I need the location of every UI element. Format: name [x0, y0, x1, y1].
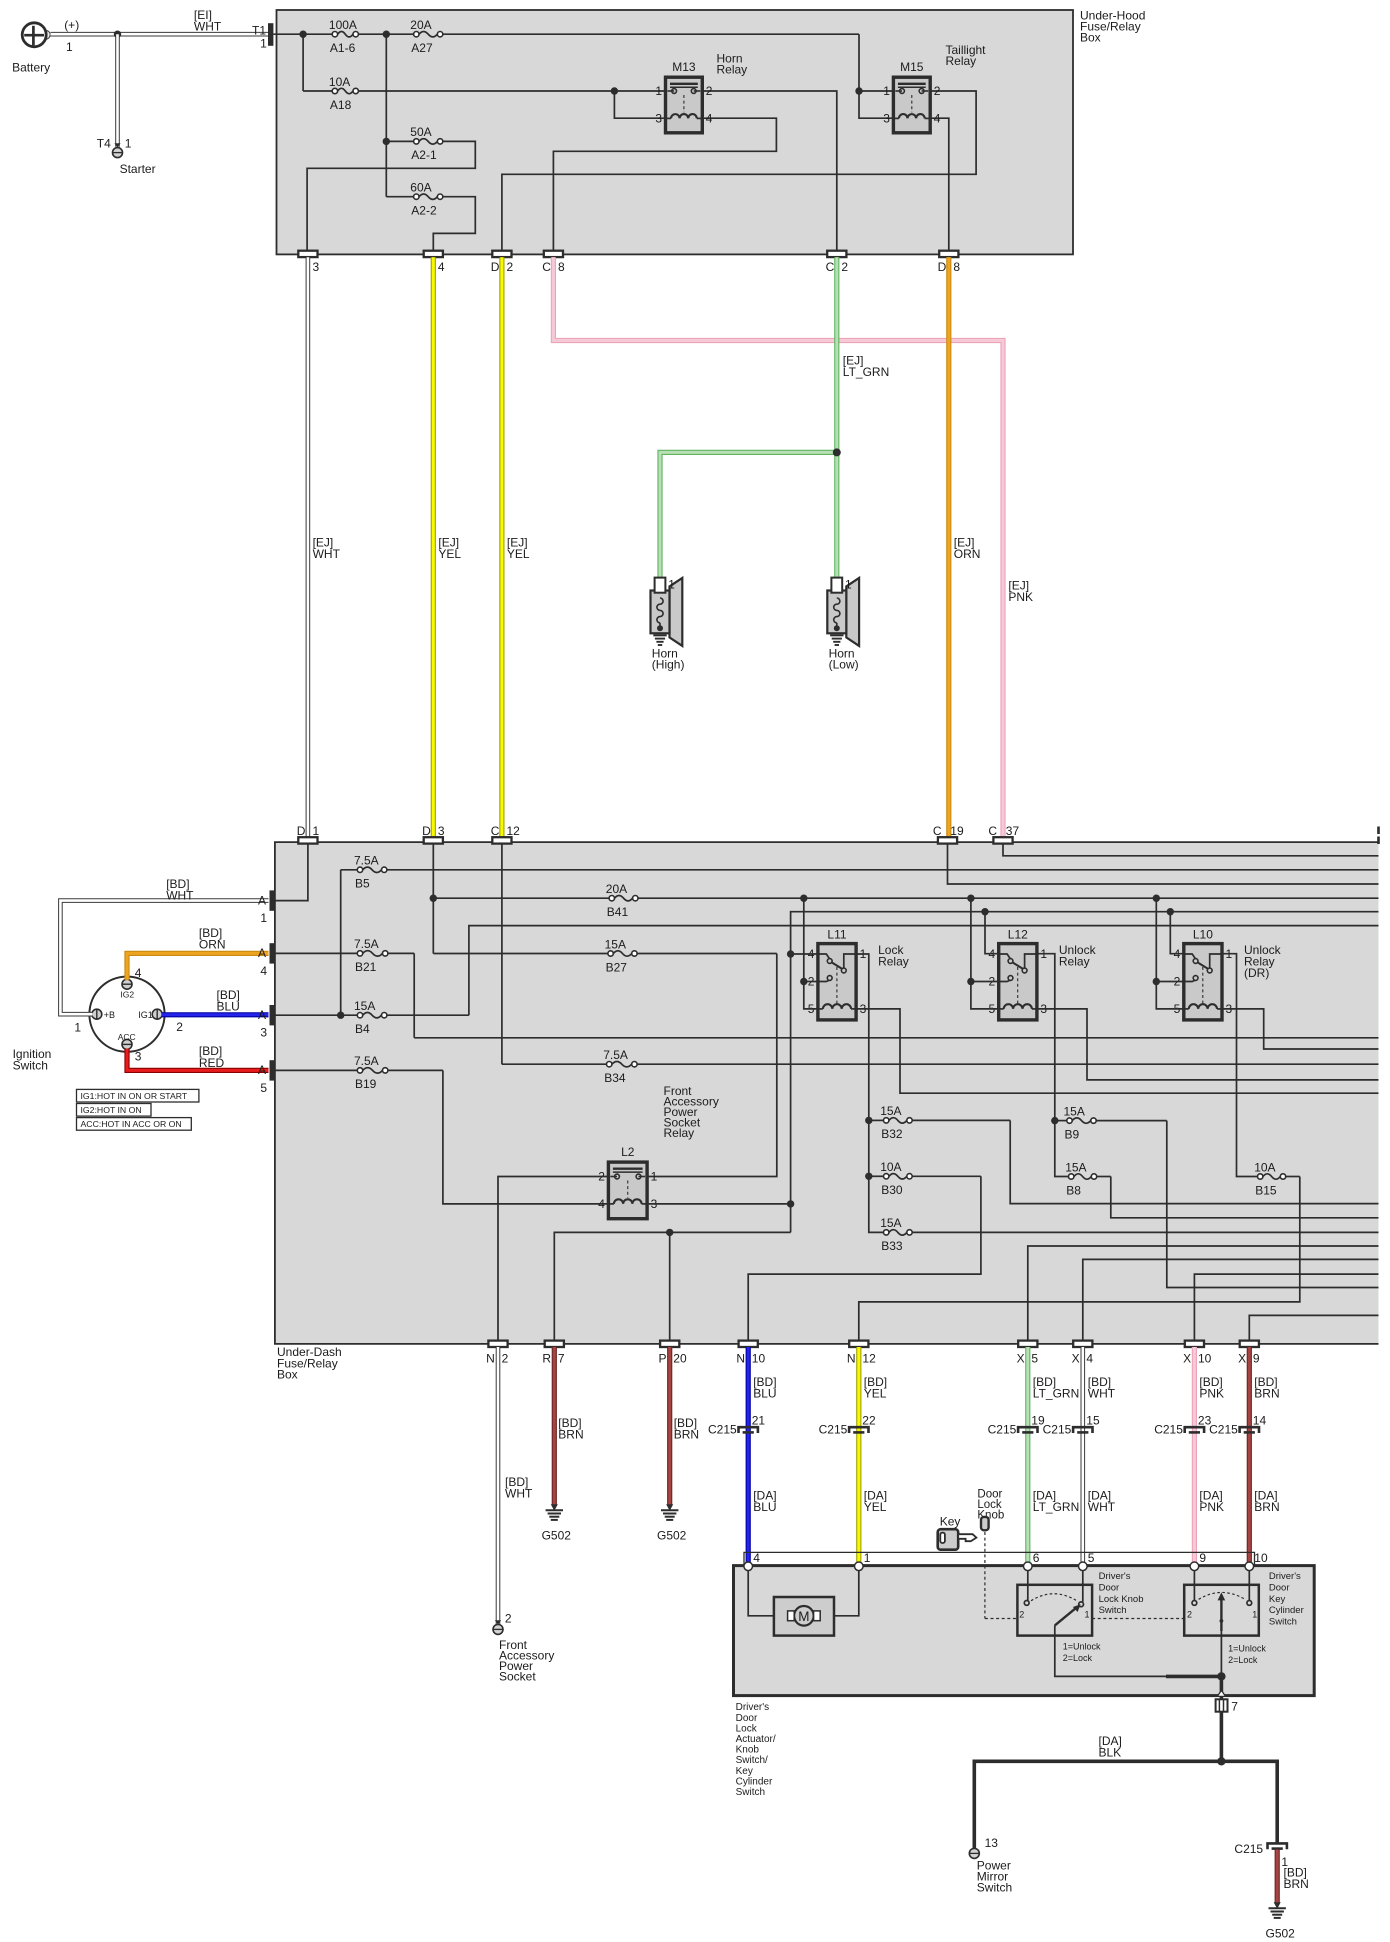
svg-text:9: 9	[1199, 1551, 1206, 1565]
svg-text:X: X	[1017, 1352, 1025, 1366]
bus row B5 output	[387, 869, 1379, 871]
svg-text:4: 4	[438, 260, 445, 274]
wire L12 pin1 to B9/B8	[1037, 954, 1069, 1177]
svg-text:Key: Key	[940, 1515, 961, 1529]
svg-text:2: 2	[507, 260, 514, 274]
svg-text:1: 1	[125, 137, 132, 151]
svg-text:Door: Door	[1099, 1582, 1120, 1593]
wire L2 pin3 row	[647, 1203, 791, 1205]
wire [BD] WHT N2 to front accessory power socket	[496, 1347, 501, 1625]
wire 60A out to connector 4	[433, 197, 475, 251]
svg-text:WHT: WHT	[505, 1487, 533, 1501]
svg-text:N: N	[486, 1352, 495, 1366]
wire B15 to N12	[859, 1177, 1300, 1341]
svg-text:C215: C215	[1234, 1842, 1263, 1856]
svg-text:3: 3	[135, 1049, 142, 1063]
junction dots top bus	[299, 31, 306, 38]
svg-text:BRN: BRN	[558, 1428, 583, 1442]
row A3/B4	[275, 1014, 357, 1016]
wire [BD]/[DA] YEL N12 to door terminal 1	[856, 1347, 861, 1563]
connector A4	[270, 943, 275, 963]
wire L10 pin2/pin5 feed	[1156, 898, 1184, 981]
svg-text:7: 7	[1231, 1700, 1238, 1714]
wire D1 to A1 inside	[275, 844, 308, 901]
svg-text:WHT: WHT	[194, 20, 222, 34]
svg-text:4: 4	[135, 966, 142, 980]
relay L10 Unlock Relay (DR)	[1184, 944, 1222, 1020]
svg-text:Box: Box	[277, 1368, 298, 1382]
svg-text:5: 5	[1031, 1352, 1038, 1366]
svg-text:D: D	[422, 824, 431, 838]
svg-text:2: 2	[1187, 1610, 1192, 1620]
svg-text:1=Unlock: 1=Unlock	[1063, 1642, 1101, 1652]
svg-text:C: C	[826, 260, 835, 274]
svg-text:Door: Door	[736, 1713, 758, 1724]
svg-text:15A: 15A	[354, 999, 375, 1013]
svg-text:22: 22	[862, 1413, 876, 1427]
svg-text:Switch: Switch	[977, 1880, 1012, 1894]
svg-text:1: 1	[260, 36, 267, 50]
door terminals	[744, 1562, 753, 1571]
wire [DA] BLK from connector 7	[1220, 1712, 1224, 1762]
connector N10	[739, 1341, 758, 1347]
svg-text:60A: 60A	[410, 181, 431, 195]
svg-text:1: 1	[651, 1170, 658, 1184]
svg-text:WHT: WHT	[1088, 1387, 1116, 1401]
svg-text:(High): (High)	[652, 658, 685, 672]
svg-text:BRN: BRN	[674, 1428, 699, 1442]
svg-text:B19: B19	[355, 1077, 377, 1091]
fuse B27 15A	[613, 951, 631, 956]
svg-text:Relay: Relay	[1059, 955, 1090, 969]
wire L12 pin4 feed	[985, 912, 999, 954]
svg-text:BRN: BRN	[1254, 1500, 1279, 1514]
fuse B8 15A	[1074, 1174, 1091, 1179]
svg-text:BLU: BLU	[753, 1387, 776, 1401]
svg-text:L11: L11	[827, 928, 846, 942]
svg-text:1=Unlock: 1=Unlock	[1228, 1644, 1266, 1654]
svg-text:Switch: Switch	[1099, 1605, 1127, 1616]
svg-text:Relay: Relay	[717, 63, 748, 77]
svg-text:B21: B21	[355, 960, 377, 974]
connector 7	[1218, 1690, 1225, 1695]
svg-text:WHT: WHT	[1088, 1500, 1116, 1514]
svg-text:B5: B5	[355, 877, 370, 891]
ignition switch SW1	[89, 977, 164, 1052]
svg-text:D: D	[297, 824, 306, 838]
wire [BD] WHT ignition +B to A1	[60, 901, 268, 1015]
svg-text:Lock Knob: Lock Knob	[1099, 1594, 1144, 1605]
relay M15 Taillight Relay	[893, 77, 930, 133]
mechanical dashed link	[984, 1532, 986, 1619]
svg-text:C: C	[542, 260, 551, 274]
wire junction down to 50A/60A	[385, 34, 387, 197]
svg-text:A2-1: A2-1	[411, 148, 437, 162]
svg-text:B15: B15	[1255, 1183, 1277, 1197]
wire M13 pin1/pin3 feed	[612, 90, 666, 92]
connector D1	[298, 837, 317, 843]
door key cylinder switch	[1193, 1571, 1195, 1601]
svg-text:L2: L2	[621, 1145, 635, 1159]
wire key switch to junction	[1220, 1631, 1222, 1676]
wire L12 pin3 out	[1037, 1009, 1379, 1080]
connector P20	[660, 1341, 679, 1347]
svg-text:G502: G502	[542, 1529, 572, 1543]
svg-text:20A: 20A	[606, 882, 627, 896]
svg-text:21: 21	[752, 1413, 766, 1427]
svg-text:10: 10	[1198, 1352, 1212, 1366]
wire [BD]/[DA] BRN X9 to door terminal 10	[1247, 1347, 1252, 1563]
terminal 13 power mirror switch	[969, 1848, 979, 1858]
svg-text:Knob: Knob	[736, 1745, 760, 1756]
svg-text:ORN: ORN	[199, 938, 226, 952]
svg-text:4: 4	[753, 1551, 760, 1565]
svg-text:4: 4	[598, 1197, 605, 1211]
wire junction down to 10A row	[302, 34, 304, 91]
driver's door lock actuator box	[734, 1566, 1315, 1696]
svg-text:10A: 10A	[880, 1160, 901, 1174]
svg-text:3: 3	[313, 260, 320, 274]
svg-text:15A: 15A	[1064, 1104, 1085, 1118]
horn (low)	[846, 578, 859, 646]
svg-text:(DR): (DR)	[1244, 966, 1269, 980]
wire B30 to N10	[748, 1176, 981, 1340]
wire [BD] RED ignition ACC to A5	[127, 1049, 269, 1071]
svg-text:Cylinder: Cylinder	[736, 1776, 773, 1787]
svg-text:1: 1	[668, 578, 675, 592]
connector C8	[544, 251, 563, 257]
svg-text:D: D	[491, 260, 500, 274]
svg-text:20A: 20A	[410, 18, 431, 32]
svg-text:1: 1	[1252, 1610, 1257, 1620]
wire [EJ] ORN D8 to C19	[946, 257, 951, 837]
connector T1	[268, 23, 273, 46]
relay M13 Horn Relay	[666, 77, 703, 133]
svg-text:Switch/: Switch/	[736, 1755, 768, 1766]
svg-text:9: 9	[1253, 1352, 1260, 1366]
svg-text:LT_GRN: LT_GRN	[1033, 1387, 1079, 1401]
wire junction to connector 7	[1220, 1676, 1224, 1698]
under-hood fuse/relay box	[277, 10, 1074, 254]
svg-text:B4: B4	[355, 1022, 370, 1036]
svg-text:T4: T4	[97, 137, 111, 151]
svg-text:2: 2	[841, 260, 848, 274]
fuse B21 7.5A	[363, 951, 383, 956]
battery B1	[42, 31, 51, 40]
svg-text:Switch: Switch	[1269, 1617, 1297, 1628]
svg-text:X: X	[1183, 1352, 1191, 1366]
svg-text:6: 6	[1033, 1551, 1040, 1565]
svg-text:1: 1	[883, 84, 890, 98]
svg-text:IG2: IG2	[120, 989, 134, 999]
connector X9	[1240, 1341, 1259, 1347]
svg-text:15A: 15A	[1065, 1160, 1086, 1174]
fuse A2-2 60A	[419, 194, 437, 199]
bus row B21 output y1038	[414, 1037, 1378, 1039]
svg-text:A1-6: A1-6	[330, 41, 356, 55]
svg-text:Box: Box	[1080, 31, 1101, 45]
wire M15 pin4 to connector D8	[930, 118, 949, 251]
svg-text:ORN: ORN	[954, 547, 981, 561]
svg-text:B33: B33	[881, 1239, 903, 1253]
connector C2	[827, 251, 846, 257]
wire [EJ] WHT connector3 to D1	[306, 257, 311, 837]
svg-text:37: 37	[1006, 824, 1020, 838]
svg-text:1: 1	[66, 40, 73, 54]
svg-text:Starter: Starter	[120, 162, 156, 176]
wire X4 feed	[1083, 1259, 1379, 1340]
svg-text:4: 4	[1086, 1352, 1093, 1366]
wire M13 pin4 to connector C8	[553, 118, 776, 251]
fuse B41 20A	[615, 896, 633, 901]
connector X5	[1018, 1341, 1037, 1347]
svg-text:15A: 15A	[880, 1104, 901, 1118]
svg-text:(Low): (Low)	[829, 658, 859, 672]
wire L12 pin2/pin5 feed	[971, 898, 999, 981]
svg-text:C: C	[933, 824, 942, 838]
wire L10 pin3 out	[1222, 1009, 1379, 1049]
bus row B41 output	[433, 897, 609, 899]
svg-text:1: 1	[260, 911, 267, 925]
note ACC hot	[77, 1118, 192, 1131]
svg-text:A2-2: A2-2	[411, 204, 437, 218]
svg-text:4: 4	[260, 964, 267, 978]
wire [BD] BRN R7 to G502	[552, 1347, 557, 1505]
svg-text:PNK: PNK	[1199, 1387, 1224, 1401]
svg-text:Switch: Switch	[736, 1787, 765, 1798]
terminal 2 front accessory power socket	[493, 1624, 503, 1634]
svg-text:Key: Key	[736, 1766, 753, 1777]
svg-text:B9: B9	[1065, 1127, 1080, 1141]
svg-text:WHT: WHT	[313, 547, 341, 561]
svg-text:IG1: IG1	[138, 1010, 153, 1020]
edge continuation mark	[1377, 827, 1380, 835]
connector 3	[298, 251, 317, 257]
row A4/B21/B27	[275, 952, 357, 954]
svg-text:YEL: YEL	[507, 547, 530, 561]
svg-text:13: 13	[985, 1836, 999, 1850]
fuse B4 15A	[363, 1013, 382, 1018]
svg-text:1: 1	[74, 1021, 81, 1035]
svg-text:12: 12	[507, 824, 521, 838]
svg-text:Actuator/: Actuator/	[736, 1734, 776, 1745]
svg-text:X: X	[1238, 1352, 1246, 1366]
connector D2	[492, 251, 511, 257]
note IG2 hot	[77, 1104, 152, 1117]
fuse A27 20A	[419, 32, 437, 37]
wire L11 pin4 feed	[791, 953, 818, 955]
relay L11 Lock Relay	[818, 944, 856, 1020]
svg-text:2: 2	[505, 1611, 512, 1625]
svg-text:B41: B41	[607, 905, 629, 919]
connector N12	[849, 1341, 868, 1347]
svg-text:3: 3	[438, 824, 445, 838]
connector C215-1	[1268, 1843, 1287, 1849]
note IG1 hot	[77, 1089, 199, 1102]
svg-text:14: 14	[1253, 1413, 1267, 1427]
wire [BD] ORN ignition IG2 to A4	[127, 953, 269, 979]
svg-text:10A: 10A	[1254, 1160, 1275, 1174]
bus row y912	[791, 912, 1379, 954]
wire [EJ] PNK C8 to C37	[553, 257, 1003, 837]
wire [BD] BLU ignition IG1 to A3	[162, 1012, 269, 1017]
svg-text:B8: B8	[1066, 1183, 1081, 1197]
svg-text:B34: B34	[604, 1071, 626, 1085]
svg-text:2: 2	[176, 1020, 183, 1034]
svg-text:Battery: Battery	[12, 61, 50, 75]
svg-text:3: 3	[260, 1026, 267, 1040]
door lock knob switch	[1027, 1571, 1029, 1601]
svg-text:4: 4	[934, 111, 941, 125]
connector C37	[993, 837, 1012, 843]
svg-text:2=Lock: 2=Lock	[1063, 1653, 1093, 1663]
wire ground row to R7/P20	[554, 1232, 790, 1340]
wire X9 feed	[1249, 1315, 1378, 1340]
wire M15 pin1/pin3 feed	[858, 34, 860, 91]
svg-text:L10: L10	[1193, 928, 1213, 942]
fuse B34 7.5A	[612, 1062, 632, 1067]
svg-text:R: R	[542, 1352, 551, 1366]
svg-text:B32: B32	[881, 1127, 903, 1141]
svg-text:7.5A: 7.5A	[354, 937, 379, 951]
ground G502 (P20)	[666, 1504, 673, 1511]
wire L11 pin2/pin5 feed from B41 row	[803, 898, 805, 981]
wire L11 pin1 to fuses B32/B30/B33	[856, 954, 883, 1232]
svg-text:19: 19	[950, 824, 964, 838]
svg-text:M: M	[798, 1609, 809, 1624]
svg-text:PNK: PNK	[1008, 590, 1033, 604]
wire [DA] BLK to C215	[1221, 1761, 1277, 1842]
svg-text:(+): (+)	[64, 18, 79, 32]
wire [BD]/[DA] PNK X10 to door terminal 9	[1192, 1347, 1197, 1563]
svg-text:A27: A27	[411, 41, 433, 55]
svg-text:WHT: WHT	[166, 889, 194, 903]
svg-text:20: 20	[673, 1352, 687, 1366]
wire L10 pin4 feed	[1170, 912, 1184, 954]
svg-text:4: 4	[706, 111, 713, 125]
fuse B32 15A	[869, 1119, 884, 1121]
svg-text:C: C	[491, 824, 500, 838]
svg-text:Relay: Relay	[878, 955, 909, 969]
door connector shell	[744, 1552, 1255, 1565]
svg-text:ACC:HOT IN ACC OR ON: ACC:HOT IN ACC OR ON	[81, 1119, 182, 1129]
svg-text:7.5A: 7.5A	[603, 1048, 628, 1062]
wire B32 out	[1010, 1120, 1378, 1203]
fuse B9 15A	[1072, 1118, 1091, 1123]
bus row B4 output	[469, 926, 1379, 1016]
svg-text:1: 1	[845, 578, 852, 592]
wire C12 down to B34 row	[501, 844, 503, 1065]
svg-text:LT_GRN: LT_GRN	[1033, 1500, 1079, 1514]
svg-text:7.5A: 7.5A	[354, 1054, 379, 1068]
connector 4	[424, 251, 443, 257]
svg-text:A: A	[258, 893, 266, 907]
fuse B19 7.5A	[363, 1068, 383, 1073]
svg-text:D: D	[938, 260, 947, 274]
wire [BD] BRN to G502	[1275, 1850, 1280, 1903]
wire B5 left down to A3 row	[341, 869, 358, 871]
svg-text:B27: B27	[606, 960, 628, 974]
wire 50A out to connector 3	[307, 141, 475, 250]
wire L10 pin1 to B15	[1222, 954, 1258, 1177]
connector D3	[424, 837, 443, 843]
svg-text:IG2:HOT IN ON: IG2:HOT IN ON	[81, 1105, 142, 1115]
svg-text:C215: C215	[1209, 1423, 1238, 1437]
svg-text:YEL: YEL	[864, 1387, 887, 1401]
svg-text:L12: L12	[1008, 928, 1028, 942]
svg-text:2: 2	[934, 84, 941, 98]
svg-text:2: 2	[1019, 1610, 1024, 1620]
svg-text:7.5A: 7.5A	[354, 854, 379, 868]
svg-text:8: 8	[953, 260, 960, 274]
svg-text:Cylinder: Cylinder	[1269, 1605, 1304, 1616]
wire [DA] BLK to power mirror switch	[974, 1761, 1221, 1849]
svg-text:C215: C215	[708, 1423, 737, 1437]
svg-text:YEL: YEL	[438, 547, 461, 561]
svg-text:15A: 15A	[605, 937, 626, 951]
wire [BD]/[DA] BLU N10 to door terminal 4	[746, 1347, 751, 1563]
relay L12 Unlock Relay	[999, 944, 1037, 1020]
svg-text:10: 10	[1254, 1551, 1268, 1565]
svg-text:A: A	[258, 1063, 266, 1077]
svg-text:B30: B30	[881, 1183, 903, 1197]
svg-text:G502: G502	[1266, 1926, 1296, 1940]
fuse B30 10A	[869, 1175, 884, 1177]
wire B27 down to L2 pin1	[647, 954, 777, 1177]
svg-text:1: 1	[1085, 1610, 1090, 1620]
svg-text:1: 1	[864, 1551, 871, 1565]
svg-text:N: N	[847, 1352, 856, 1366]
connector X10	[1185, 1341, 1204, 1347]
svg-text:2=Lock: 2=Lock	[1228, 1655, 1258, 1665]
svg-text:A18: A18	[330, 98, 352, 112]
wire L11 pin3 out	[856, 1009, 1378, 1093]
door lock motor M	[748, 1571, 774, 1616]
connector D8	[939, 251, 958, 257]
wire B8 out	[1111, 1177, 1379, 1218]
fuse A1-6 100A	[338, 32, 353, 37]
wire [BD]/[DA] LT_GRN X5 to door terminal 6	[1025, 1347, 1030, 1563]
svg-text:3: 3	[883, 111, 890, 125]
svg-text:1: 1	[655, 84, 662, 98]
svg-text:YEL: YEL	[864, 1500, 887, 1514]
svg-text:Driver's: Driver's	[736, 1702, 770, 1713]
connector C12	[492, 837, 511, 843]
wire M15 pin2 to connector D2	[502, 91, 976, 251]
svg-text:BRN: BRN	[1284, 1877, 1309, 1891]
svg-text:P: P	[658, 1352, 666, 1366]
svg-text:A: A	[258, 946, 266, 960]
wire X10 feed	[1194, 1274, 1378, 1341]
wire to starter	[115, 34, 120, 147]
svg-text:ACC: ACC	[118, 1032, 136, 1042]
svg-text:Driver's: Driver's	[1099, 1571, 1131, 1582]
svg-text:Relay: Relay	[664, 1126, 695, 1140]
svg-text:15: 15	[1086, 1413, 1100, 1427]
svg-text:BRN: BRN	[1254, 1387, 1279, 1401]
svg-text:Lock: Lock	[736, 1723, 758, 1734]
svg-text:2: 2	[706, 84, 713, 98]
svg-text:Key: Key	[1269, 1594, 1286, 1605]
svg-text:100A: 100A	[329, 18, 357, 32]
ground G502 (bottom)	[1274, 1902, 1281, 1909]
wire B9 out	[1167, 1121, 1379, 1288]
connector A3	[270, 1005, 275, 1025]
horn (high)	[670, 578, 683, 646]
wire [BD]/[DA] WHT X4 to door terminal 5	[1081, 1347, 1086, 1563]
wire [BD] BRN P20 to G502	[667, 1347, 672, 1505]
svg-text:RED: RED	[199, 1056, 225, 1070]
